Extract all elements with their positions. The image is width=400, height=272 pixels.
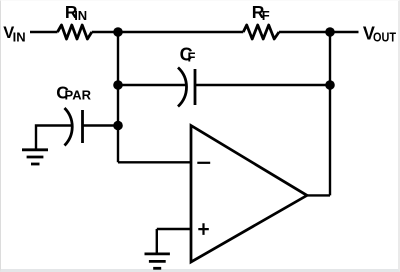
label R_F: [252, 2, 270, 23]
svg-text:F: F: [188, 50, 196, 65]
wire C_F left: [118, 84, 186, 86]
wire non-inverting input: [157, 228, 191, 230]
capacitor C_F straight plate: [194, 69, 197, 105]
svg-text:IN: IN: [13, 29, 26, 44]
wire R_IN to R_F (top rail through node A): [92, 31, 244, 33]
junction dot C_F right: [325, 80, 335, 90]
resistor R_IN: [58, 25, 92, 39]
capacitor C_F curved plate: [178, 68, 187, 107]
label V_OUT: [363, 24, 396, 45]
wire C_PAR left + ground riser: [36, 126, 73, 149]
wire ground riser for + input: [156, 229, 158, 253]
node A junction dot (R_IN / R_F): [113, 27, 123, 37]
node V_OUT junction dot: [325, 27, 335, 37]
wire R_F to V_OUT node: [279, 31, 359, 33]
ground right (op-amp + input): [145, 252, 170, 255]
wire C_PAR right: [83, 124, 119, 126]
svg-text:IN: IN: [74, 8, 87, 23]
label V_IN: [3, 24, 25, 44]
resistor R_F: [243, 25, 279, 39]
wire V_OUT node vertical x=330: [329, 32, 331, 195]
wire V_IN to R_IN: [30, 31, 58, 33]
wire C_F right: [195, 84, 330, 86]
svg-text:F: F: [262, 8, 270, 23]
junction dot C_F left: [113, 80, 123, 90]
op-amp minus sign: [197, 162, 210, 164]
label C_F: [180, 44, 196, 64]
label R_IN: [65, 2, 87, 23]
svg-text:PAR: PAR: [65, 88, 92, 103]
junction dot C_PAR: [113, 121, 123, 131]
capacitor C_PAR straight plate: [81, 110, 84, 143]
op-amp plus sign: [198, 223, 209, 235]
capacitor C_PAR curved plate: [65, 108, 73, 146]
wire inverting input: [118, 161, 191, 163]
op-amp U1 triangle: [191, 126, 307, 263]
wire op-amp output: [305, 194, 330, 196]
label C_PAR: [56, 82, 91, 102]
svg-text:OUT: OUT: [373, 30, 396, 45]
ground left (under C_PAR): [22, 148, 48, 151]
wire node A vertical x=118: [117, 32, 119, 162]
